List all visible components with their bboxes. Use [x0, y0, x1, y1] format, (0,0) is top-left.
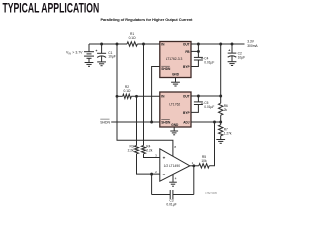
node: C1 junction [100, 43, 103, 46]
svg-text:–: – [163, 172, 166, 177]
ground (C1) [97, 61, 106, 63]
resistor R7 [219, 125, 223, 136]
wire: U1 IN sense line down through R4 [143, 44, 145, 146]
op-amp U3 1/2 LT1490 [160, 149, 190, 181]
svg-text:2k: 2k [224, 108, 228, 112]
capacitor C5 [197, 96, 199, 102]
svg-text:OUT: OUT [183, 43, 190, 47]
node: R5 feedback into ADJ [213, 121, 216, 124]
resistor R3 [135, 146, 139, 154]
capacitor C4 [194, 56, 203, 58]
svg-text:Paralleling of Regulators for: Paralleling of Regulators for Higher Out… [101, 17, 194, 22]
node: R6 R7 ADJ junction [219, 121, 222, 124]
capacitor C2 [231, 44, 233, 53]
svg-text:GND: GND [171, 123, 179, 127]
node: inverting input branch [150, 173, 153, 176]
svg-text:0.01µF: 0.01µF [204, 105, 214, 109]
svg-text:1762 TA05: 1762 TA05 [205, 192, 217, 195]
wire: R5 to ADJ node [209, 122, 214, 166]
svg-text:+: + [163, 155, 166, 160]
regulator U1 LT1762-3.3 [160, 42, 191, 78]
wire: U1 GND [175, 78, 177, 82]
svg-text:IN: IN [68, 52, 71, 55]
svg-text:LT1762-3.3: LT1762-3.3 [166, 57, 183, 61]
svg-text:1/2 LT1490: 1/2 LT1490 [164, 164, 181, 168]
wire: U2 OUT up to rail [220, 44, 222, 103]
node: FB tie [197, 43, 200, 46]
svg-text:10µF: 10µF [108, 55, 116, 59]
svg-text:GND: GND [172, 73, 180, 77]
svg-text:SHDN: SHDN [100, 120, 110, 124]
svg-text:LT1762: LT1762 [169, 103, 180, 107]
node: paralleled outputs [219, 95, 222, 98]
svg-text:10µF: 10µF [238, 56, 246, 60]
svg-text:TYPICAL APPLICATION: TYPICAL APPLICATION [2, 2, 99, 16]
wire: R4 bottom to non-inverting input [144, 154, 160, 158]
wire: rail down to R2 left [116, 44, 118, 96]
resistor R1 [127, 42, 137, 46]
svg-text:FB: FB [185, 50, 190, 54]
wire: R2 right to U2 IN [131, 95, 160, 97]
svg-text:2.2k: 2.2k [146, 148, 152, 152]
svg-text:ADJ: ADJ [183, 121, 190, 125]
wire: OUT down to FB [197, 44, 199, 57]
wire: feedback loop up to output [193, 166, 195, 195]
svg-text:+: + [228, 49, 230, 53]
wire: U2 OUT [191, 95, 221, 97]
svg-text:OUT: OUT [183, 95, 190, 99]
wire: R3 bottom to inverting input [137, 154, 160, 174]
wire: op-amp pin 4 to ground [172, 174, 174, 182]
wire: SHDN to both regulators [111, 121, 160, 123]
svg-text:0.1Ω: 0.1Ω [123, 89, 131, 93]
wire: output rail 3.3V [191, 43, 245, 45]
wire: U2 IN sense down through R3 [136, 96, 138, 145]
wire: ADJ pin [191, 121, 221, 123]
svg-text:10k: 10k [201, 159, 207, 163]
capacitor C3 [152, 194, 171, 196]
wire: feedback loop down [151, 174, 153, 194]
ground (U1) [171, 81, 180, 83]
svg-text:SHDN: SHDN [161, 121, 171, 125]
ground (R7) [216, 139, 225, 141]
wire: SHDN up to U1 [152, 67, 160, 123]
node: rail right of R1 (U1 IN sense) [142, 43, 145, 46]
svg-text:300mA: 300mA [247, 44, 258, 48]
svg-text:SHDN: SHDN [161, 67, 171, 71]
node: SHDN branch [150, 121, 153, 124]
resistor R2 [123, 94, 132, 98]
node: R2 left [116, 95, 119, 98]
svg-text:0.01µF: 0.01µF [204, 60, 214, 64]
node: R2 right (U2 IN) [135, 95, 138, 98]
ground (C2) [228, 61, 237, 63]
node: FB junction [197, 50, 200, 53]
resistor R4 [142, 146, 146, 154]
ground (battery) [85, 62, 94, 64]
node: output junction [192, 164, 195, 167]
wire: FB pin [191, 50, 198, 52]
battery VIN [88, 44, 90, 52]
svg-text:1.27k: 1.27k [224, 131, 232, 135]
svg-text:+: + [95, 49, 97, 53]
svg-text:> 3.7V: > 3.7V [72, 50, 83, 54]
C5 tick [201, 102, 204, 104]
C4 tick [201, 58, 204, 60]
svg-text:0.01µF: 0.01µF [166, 202, 176, 206]
regulator U2 LT1762 [160, 92, 191, 127]
wire: U2 GND [173, 127, 175, 131]
svg-text:BYP: BYP [183, 111, 190, 115]
svg-text:BYP: BYP [183, 65, 190, 69]
resistor R5 [199, 164, 209, 168]
wire: VIN rail down to op-amp pin 8 [117, 96, 173, 156]
ground (op-amp) [169, 181, 177, 183]
wire: op-amp output [190, 165, 199, 167]
node: C5 top [197, 95, 200, 98]
wire: input rail [89, 43, 127, 45]
resistor R6 [219, 103, 223, 115]
node: C2 [231, 43, 234, 46]
capacitor C1 [101, 44, 103, 53]
svg-text:0.1Ω: 0.1Ω [129, 36, 137, 40]
ground (U2) [170, 130, 178, 132]
svg-text:2.2k: 2.2k [128, 148, 134, 152]
node: rail to R2 [116, 43, 119, 46]
